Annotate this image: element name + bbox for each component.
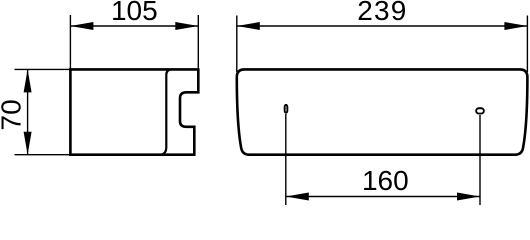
dim 105 extension line right	[197, 15, 199, 69]
dim 105 arrow right	[175, 22, 198, 30]
dim 239 extension line left	[236, 16, 238, 73]
dim 160 dimension line	[286, 196, 480, 198]
dim 105 dimension line	[70, 25, 198, 27]
dim 105 extension line left	[69, 15, 71, 69]
side view bracket face line	[162, 69, 172, 154]
side view outline	[70, 69, 198, 154]
dim 239 arrow right	[504, 22, 527, 30]
mounting hole right (horizontal slot)	[476, 108, 484, 113]
front view outline	[237, 69, 528, 154]
dim 70 dimension line	[27, 69, 29, 154]
dim 239 extension line right	[526, 16, 528, 73]
svg-text:70: 70	[0, 99, 27, 130]
dim 70 extension line top	[15, 68, 71, 70]
dim 160 extension line left	[285, 114, 287, 205]
dim 239 dimension line	[237, 25, 528, 27]
dim 160 extension line right	[479, 115, 481, 205]
dim 160 arrow left	[286, 193, 309, 201]
svg-text:239: 239	[357, 0, 407, 26]
dim 70 arrow top	[24, 69, 32, 92]
dim 70 arrow bottom	[24, 132, 32, 155]
dim 70 extension line bottom	[15, 154, 71, 156]
svg-text:105: 105	[111, 0, 158, 26]
svg-text:160: 160	[362, 165, 409, 196]
mounting hole left (vertical slot)	[285, 105, 288, 113]
dim 239 arrow left	[237, 22, 260, 30]
dim 105 arrow left	[70, 22, 93, 30]
dim 160 arrow right	[457, 193, 480, 201]
